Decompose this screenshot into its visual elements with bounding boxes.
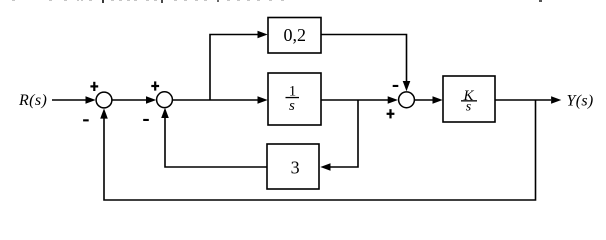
- plus sign at S3: [387, 109, 395, 118]
- wire 0,2 to summer S3 top: [321, 35, 410, 92]
- svg-text:0,2: 0,2: [284, 25, 307, 45]
- wire 1/s to summer S3 through node B: [321, 96, 398, 104]
- wire node C outer feedback down and back to S1: [100, 100, 535, 200]
- wire block 3 back up to S2 (feedback): [161, 108, 267, 167]
- cropped text line remnants (top edge): [12, 0, 542, 3]
- block 3: [267, 144, 319, 189]
- wire node A up to block 0,2: [210, 31, 268, 100]
- minus sign at S3 (top): [393, 85, 399, 87]
- input label R(s): [18, 92, 47, 109]
- wire R(s) to summer S1: [52, 96, 96, 104]
- minus sign at S1: [83, 119, 89, 121]
- svg-text:R(s): R(s): [18, 92, 47, 109]
- minus sign at S2: [143, 119, 149, 121]
- svg-text:s: s: [289, 98, 295, 114]
- block 0,2: [268, 18, 321, 54]
- svg-text:Y(s): Y(s): [567, 93, 594, 110]
- block K/s: [443, 76, 495, 122]
- plus sign at S1: [90, 82, 98, 91]
- wire S1 to S2: [112, 96, 156, 104]
- output label Y(s): [567, 93, 594, 110]
- wire K/s to output node C: [495, 96, 561, 104]
- wire S2 to block 1/s through node A: [173, 96, 268, 104]
- wire S3 to block K/s: [415, 96, 443, 104]
- block 1/s: [268, 73, 321, 125]
- summing junction S1: [96, 92, 112, 108]
- svg-text:s: s: [466, 99, 472, 114]
- summing junction S2: [157, 92, 173, 108]
- wire node B down to block 3: [320, 100, 358, 171]
- svg-text:3: 3: [291, 157, 300, 177]
- summing junction S3: [399, 92, 415, 108]
- plus sign at S2: [151, 81, 159, 90]
